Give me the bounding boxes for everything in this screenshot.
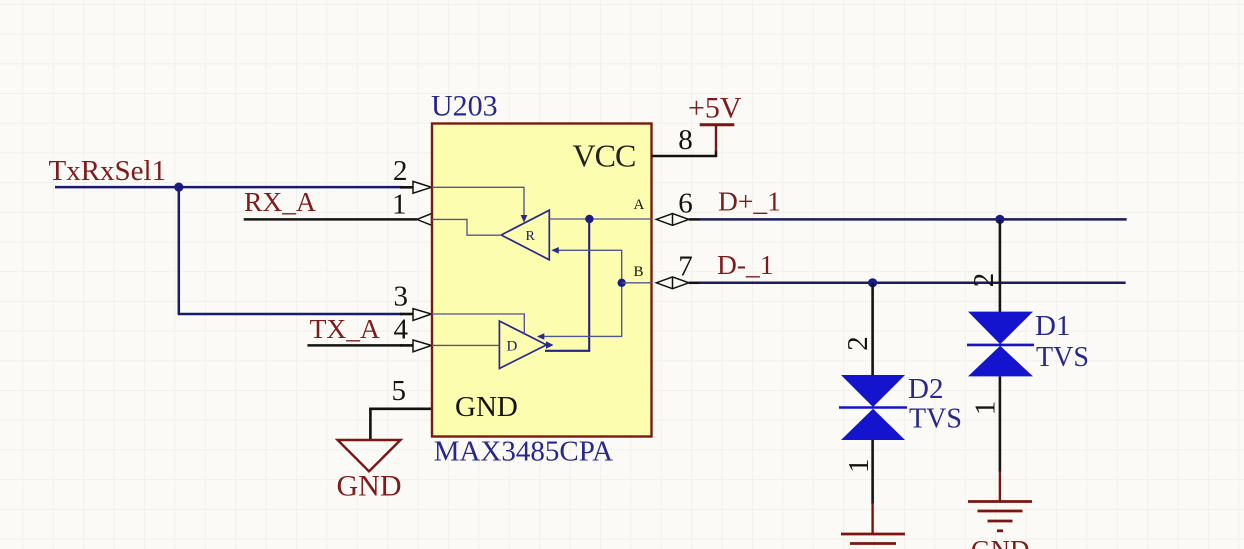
wire D2 bottom [871, 440, 874, 504]
internal line A net [549, 218, 651, 220]
svg-text:TX_A: TX_A [310, 313, 380, 344]
internal arrow into R top [521, 215, 528, 223]
svg-text:1: 1 [969, 401, 1001, 416]
internal line B net [622, 282, 652, 284]
wire D- net [699, 282, 1126, 285]
svg-text:6: 6 [678, 188, 693, 220]
svg-text:U203: U203 [431, 90, 498, 123]
svg-text:MAX3485CPA: MAX3485CPA [434, 436, 613, 468]
internal line RE/DE from B [539, 250, 622, 336]
svg-text:D: D [507, 339, 518, 355]
power port GND (left) [337, 440, 402, 503]
junction internal A [585, 215, 593, 223]
svg-text:7: 7 [678, 250, 693, 282]
svg-text:2: 2 [393, 155, 408, 187]
internal arrow into D top [537, 333, 545, 340]
pin 7 of U203 (bidirectional) [656, 277, 700, 289]
svg-text:TVS: TVS [909, 404, 962, 435]
svg-text:TxRxSel1: TxRxSel1 [49, 155, 167, 187]
pin 4 of U203 (input arrow) [400, 340, 431, 352]
pin 8 of U203 [652, 155, 717, 158]
junction D+ / D1 [995, 215, 1004, 224]
svg-text:VCC: VCC [573, 138, 636, 174]
internal line pin4 to D input [432, 344, 499, 346]
wire TxRxSel1 to pin 3 [178, 313, 402, 316]
wire D1 bottom [999, 376, 1002, 472]
svg-text:1: 1 [392, 189, 407, 221]
IC U203 body [432, 124, 652, 437]
svg-text:D1: D1 [1035, 310, 1070, 342]
svg-text:RX_A: RX_A [244, 186, 316, 217]
internal line pin3 to D enable [432, 314, 524, 335]
svg-text:GND: GND [455, 391, 518, 423]
pin 6 of U203 (bidirectional) [656, 214, 700, 226]
wire D+ net [699, 218, 1127, 221]
pin 2 of U203 (input arrow) [400, 181, 431, 193]
wire pin 5 vertical [369, 408, 372, 441]
TVS diode D1 [967, 312, 1034, 377]
wire TxRxSel1 vertical drop [178, 187, 181, 314]
power port +5V [688, 92, 742, 158]
svg-text:1: 1 [843, 458, 875, 473]
internal arrow driver output [546, 341, 554, 348]
svg-text:D+_1: D+_1 [718, 186, 781, 217]
wire RX_A [244, 218, 417, 221]
svg-text:GND: GND [971, 535, 1030, 549]
junction D- / D2 [868, 278, 877, 287]
svg-text:5: 5 [392, 375, 407, 407]
svg-text:3: 3 [394, 281, 409, 313]
receiver buffer R triangle [501, 210, 549, 260]
TVS diode D2 [839, 375, 907, 440]
svg-text:2: 2 [968, 273, 1000, 288]
wire TxRxSel1 to pin 2 [179, 186, 402, 189]
wire TxRxSel1 horizontal [55, 186, 179, 189]
svg-text:2: 2 [842, 336, 874, 351]
svg-text:4: 4 [394, 314, 409, 346]
power port GND earth (D2) [841, 503, 905, 544]
svg-text:TVS: TVS [1036, 342, 1089, 373]
junction TxRxSel1 node [174, 183, 183, 192]
internal line pin1 to R output [432, 219, 502, 235]
internal line pin2 to R enable [432, 187, 524, 216]
svg-text:GND: GND [337, 470, 402, 503]
driver buffer D triangle [499, 321, 546, 369]
pin 3 of U203 (input arrow) [400, 309, 431, 321]
svg-text:+5V: +5V [688, 92, 742, 125]
wire D1 top [999, 219, 1002, 312]
junction internal B [618, 279, 626, 287]
svg-text:B: B [634, 264, 644, 280]
wire D2 top [871, 283, 874, 376]
svg-text:A: A [634, 197, 645, 213]
wire TX_A [307, 344, 402, 347]
svg-text:D-_1: D-_1 [717, 249, 774, 280]
svg-text:8: 8 [678, 124, 693, 156]
internal arrow into R right edge [551, 247, 559, 254]
svg-text:R: R [526, 229, 536, 244]
pin 1 of U203 (output arrow) [417, 214, 432, 226]
power port GND earth (D1) [968, 471, 1032, 549]
svg-text:D2: D2 [908, 373, 943, 405]
pin 5 of U203 [369, 407, 432, 410]
internal driver output thick line [545, 219, 589, 351]
